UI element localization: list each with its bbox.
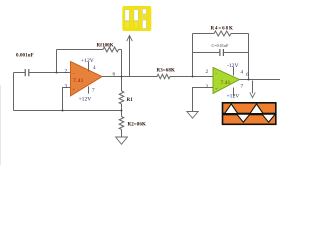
resistor R2=86K [119, 117, 146, 130]
resistor R4=68K [211, 27, 234, 37]
wire R2 to ground [121, 130, 123, 138]
svg-text:R2=86K: R2=86K [128, 123, 146, 128]
svg-text:+12V: +12V [227, 94, 240, 100]
svg-text:6: 6 [246, 72, 249, 78]
capacitor C=0.01uF [212, 43, 249, 56]
arrow to square wave [127, 35, 133, 76]
svg-text:7: 7 [241, 84, 244, 90]
svg-text:0.001uF: 0.001uF [16, 54, 34, 59]
wire U1 output [102, 76, 157, 78]
wire feedback2 top right [231, 33, 249, 35]
svg-text:-12V: -12V [227, 63, 239, 69]
triangle-wave image icon [223, 103, 276, 125]
arrow to triangle wave [250, 81, 255, 98]
junction node D [62, 110, 64, 112]
wire pin3 loop [63, 88, 71, 111]
svg-text:4: 4 [93, 65, 96, 71]
wire left input [14, 72, 26, 74]
op-amp U2 741 [213, 68, 240, 94]
faint left page edge [0, 85, 1, 165]
wire feedback2 top left [193, 33, 215, 35]
wire junction to pin3 loop [63, 110, 122, 112]
resistor R1 [119, 91, 133, 104]
junction node F [248, 79, 250, 81]
wire feedback2 right leg [248, 34, 250, 80]
pin 4 stub U2 [233, 67, 235, 76]
svg-text:R3=68K: R3=68K [157, 69, 175, 74]
op-amp U1 741 [71, 62, 103, 97]
resistor R3=68K [157, 69, 175, 79]
resistor Rf100K [97, 44, 122, 52]
wire feedback2 left leg [192, 34, 194, 77]
wire bottom horizontal [14, 110, 122, 112]
wire R1 branch vertical [121, 77, 123, 92]
wire cap branch left [193, 52, 220, 54]
wire feedback right leg [121, 50, 123, 77]
pin 7 stub U1 [88, 86, 90, 93]
svg-text:+12V: +12V [79, 97, 92, 103]
wire R1 to junction [121, 104, 123, 117]
pin 7 stub U2 [233, 88, 235, 97]
wire feedback top [57, 49, 104, 51]
junction node C [121, 110, 123, 112]
junction node A [56, 72, 58, 74]
svg-text:2: 2 [65, 69, 68, 75]
wire U2 output [240, 79, 281, 81]
junction node B [121, 76, 123, 78]
svg-text:2: 2 [206, 69, 209, 75]
wire R3 to U2 [170, 76, 213, 78]
svg-text:+12V: +12V [81, 58, 94, 64]
svg-text:7.41: 7.41 [221, 80, 231, 86]
capacitor C1 [25, 69, 70, 76]
square-wave image icon [122, 6, 151, 31]
wire left vertical [13, 73, 15, 111]
svg-text:C=0.01uF: C=0.01uF [212, 43, 230, 48]
junction node E [192, 76, 194, 78]
ground U2 [187, 112, 198, 119]
svg-text:Rf100K: Rf100K [97, 44, 114, 49]
svg-text:7: 7 [92, 88, 95, 94]
svg-text:R4=68K: R4=68K [211, 27, 234, 32]
svg-text:R1: R1 [127, 98, 134, 103]
svg-text:4: 4 [241, 70, 244, 76]
ground [116, 137, 128, 144]
svg-text:7.41: 7.41 [73, 78, 84, 84]
wire U2 pin3 to ground [193, 88, 214, 112]
wire feedback left leg [56, 50, 58, 73]
pin 4 stub U1 [88, 62, 90, 72]
svg-text:3: 3 [65, 84, 68, 90]
